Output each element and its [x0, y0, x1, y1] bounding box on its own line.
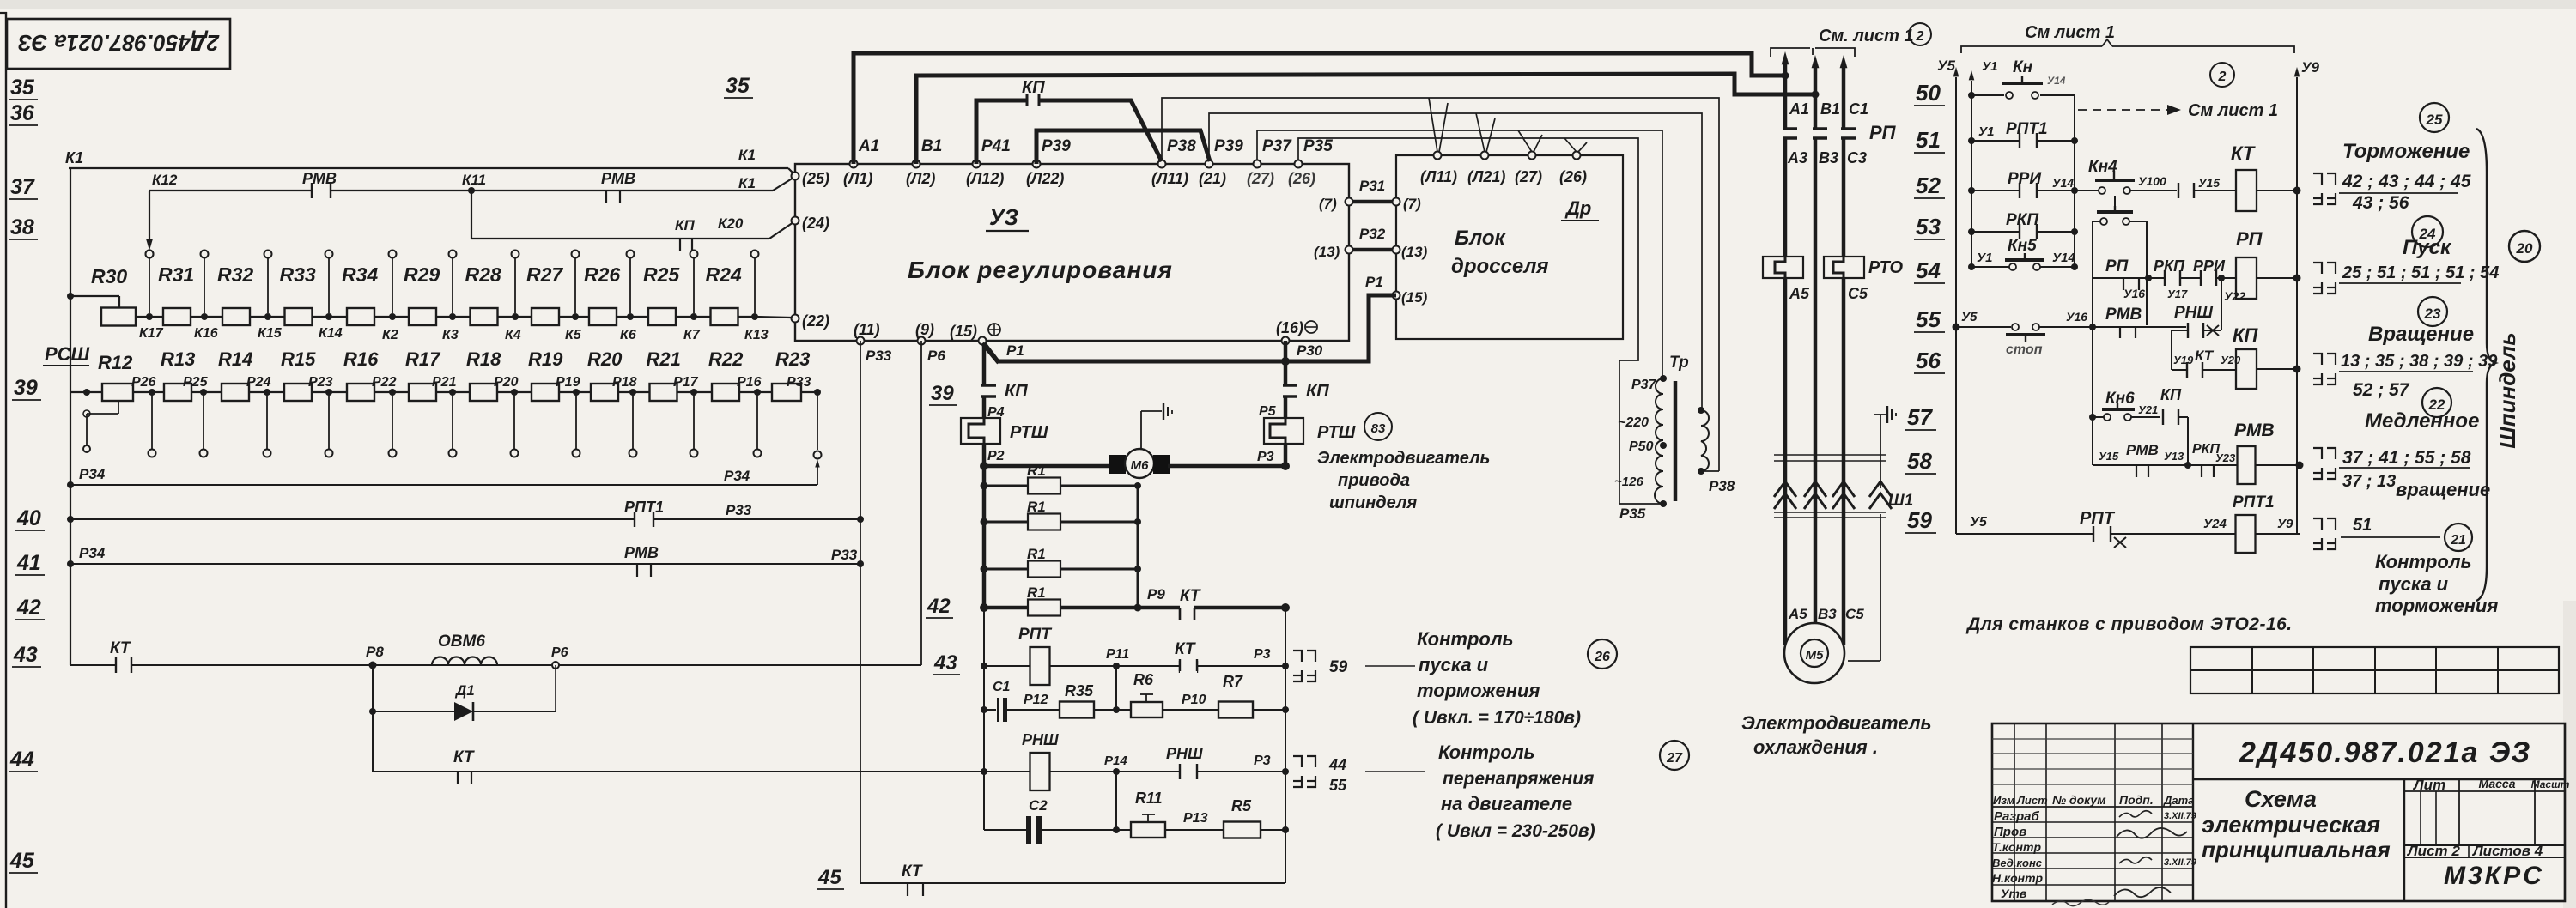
wire line 43 left (КТ-ОВМ6-Р6) — [70, 664, 921, 666]
node K11 — [468, 187, 475, 194]
bottom terminal (15) plus — [979, 337, 987, 345]
node К3 — [449, 313, 456, 320]
svg-text:Р24: Р24 — [246, 375, 271, 390]
node Р14 — [1113, 768, 1120, 775]
cable marker lines lower — [1774, 512, 1886, 513]
svg-text:Листов 4: Листов 4 — [2471, 843, 2543, 859]
diode Д1 branch — [369, 708, 376, 715]
svg-text:13 ; 35 ; 38 ; 39 ; 39: 13 ; 35 ; 38 ; 39 ; 39 — [2341, 352, 2498, 371]
block Блок регулирования outline — [795, 164, 1349, 341]
wire — [694, 316, 711, 318]
top terminal Р39 (Л22) — [1033, 160, 1041, 168]
contact PMB 1 — [313, 188, 330, 193]
R12 wiper tap — [118, 401, 119, 414]
thin wire (21) to choke block — [1209, 113, 1702, 410]
node К16 — [201, 313, 208, 320]
node К7 — [690, 313, 697, 320]
svg-text:Р3: Р3 — [1257, 450, 1274, 464]
terminal (22) — [792, 315, 799, 323]
relay coil РПТ — [1030, 647, 1050, 685]
wire Р34 line — [67, 481, 74, 488]
svg-text:(11): (11) — [854, 321, 880, 338]
svg-text:торможения: торможения — [1417, 680, 1540, 701]
top terminal Р41 (Л12) — [973, 160, 981, 168]
svg-text:R5: R5 — [1231, 797, 1252, 814]
title block outline — [1992, 723, 2565, 901]
svg-text:Р12: Р12 — [1024, 693, 1048, 707]
svg-text:R1: R1 — [1027, 463, 1046, 479]
wire line 42 with R1 and КТ — [980, 603, 988, 612]
svg-text:РМВ: РМВ — [2105, 306, 2142, 324]
resistor R25 — [648, 308, 676, 325]
svg-text:Р38: Р38 — [1167, 137, 1196, 155]
svg-text:РРИ: РРИ — [2008, 170, 2041, 188]
resistor R16 — [347, 384, 374, 401]
rail У9 right — [2294, 67, 2300, 76]
svg-text:Кн: Кн — [2013, 58, 2033, 76]
svg-text:К1: К1 — [65, 149, 83, 166]
node Р16 — [754, 389, 761, 396]
svg-text:R1: R1 — [1027, 499, 1046, 515]
wire K1 top line — [69, 167, 788, 169]
bottom terminal (11) Р33 — [857, 337, 865, 345]
svg-text:К7: К7 — [683, 328, 701, 342]
transformer core — [1674, 381, 1678, 501]
node Р23 — [325, 389, 332, 396]
contact КТ line44 — [457, 772, 459, 784]
svg-text:У22: У22 — [2224, 289, 2245, 303]
svg-text:Р10: Р10 — [1182, 693, 1206, 707]
node Р26 — [149, 389, 155, 396]
title block internal lines — [2192, 723, 2194, 901]
svg-text:R30: R30 — [91, 265, 127, 288]
wire to Р2 — [982, 444, 987, 466]
thin wire Л11 to choke block — [1162, 98, 1719, 471]
node К2 — [389, 313, 396, 320]
svg-text:(Л22): (Л22) — [1026, 170, 1064, 187]
svg-text:Торможение: Торможение — [2342, 140, 2470, 163]
node Р30 junction — [1281, 357, 1290, 366]
svg-text:(9): (9) — [915, 321, 934, 338]
svg-text:Для станков с приводом ЭТО2-1: Для станков с приводом ЭТО2-16. — [1965, 614, 2293, 634]
button Кн4 lower contact — [2093, 221, 2100, 222]
svg-text:Р6: Р6 — [551, 645, 568, 660]
svg-text:КП: КП — [2160, 386, 2182, 403]
ground wire and symbol — [1880, 415, 1881, 488]
svg-text:РПТ1: РПТ1 — [2233, 493, 2275, 512]
svg-text:Пуск: Пуск — [2403, 236, 2452, 259]
svg-text:25: 25 — [2426, 112, 2443, 128]
terminal circle above К14 — [325, 251, 333, 258]
svg-text:Р22: Р22 — [372, 375, 397, 390]
svg-text:Др: Др — [1564, 197, 1591, 219]
link РНШ branch — [2218, 275, 2225, 281]
wire — [267, 391, 284, 393]
node К15 — [264, 313, 271, 320]
choke top terminal (26) — [1573, 152, 1581, 160]
svg-text:R16: R16 — [343, 348, 379, 370]
relay coil РНШ — [1030, 753, 1050, 790]
svg-text:R1: R1 — [1027, 546, 1046, 562]
capacitor С2 row — [984, 829, 1028, 831]
svg-text:R13: R13 — [161, 348, 195, 370]
svg-text:Р14: Р14 — [1104, 754, 1127, 768]
ground at motor М6 — [1140, 411, 1142, 449]
wire Кн6 bypass verticals — [2187, 417, 2189, 465]
wire phase А lower — [1783, 278, 1788, 645]
svg-text:КТ: КТ — [453, 748, 475, 766]
svg-text:Масса: Масса — [2479, 777, 2516, 790]
svg-text:охлаждения .: охлаждения . — [1753, 736, 1878, 758]
svg-text:39: 39 — [14, 376, 38, 400]
off-sheet bracket См лист 1 (2) — [1771, 48, 1810, 57]
svg-text:Масшт: Масшт — [2531, 778, 2570, 790]
svg-text:(13): (13) — [1401, 244, 1428, 260]
svg-text:Кн6: Кн6 — [2105, 390, 2135, 408]
svg-text:Р1: Р1 — [1006, 342, 1024, 359]
svg-text:40: 40 — [16, 506, 41, 530]
svg-text:50: 50 — [1916, 80, 1941, 106]
contact КП row 52 — [2179, 188, 2193, 193]
svg-text:Пров: Пров — [1994, 825, 2026, 839]
svg-text:шпинделя: шпинделя — [1329, 493, 1417, 512]
button Кн5 row 54 — [1968, 263, 1975, 270]
row РМВ-РКП y542 — [2092, 327, 2093, 465]
svg-text:Р33: Р33 — [866, 348, 892, 364]
svg-text:У14: У14 — [2052, 176, 2074, 190]
svg-text:У20: У20 — [2221, 354, 2241, 366]
sheet frame left border — [5, 12, 7, 908]
svg-text:Лит: Лит — [2412, 777, 2445, 793]
wire K20 line — [471, 191, 472, 239]
svg-text:У15: У15 — [2099, 450, 2119, 463]
resistor R14 — [222, 384, 249, 401]
svg-text:42: 42 — [927, 595, 951, 618]
svg-text:2: 2 — [2218, 70, 2227, 84]
contact РКП row 53 — [1968, 228, 1975, 235]
svg-text:Р16: Р16 — [737, 375, 762, 390]
terminal circle below Р22 — [392, 392, 393, 449]
svg-text:С3: С3 — [1847, 149, 1867, 166]
cross-ref pair Пуск — [2313, 263, 2322, 274]
svg-text:К12: К12 — [152, 172, 178, 188]
node Р18 — [629, 389, 636, 396]
motor М6 armature — [984, 464, 1111, 469]
terminal circle above К7 — [690, 251, 698, 258]
svg-text:Р13: Р13 — [1183, 811, 1208, 826]
top terminal Р37 (27) — [1254, 160, 1261, 168]
button Кн4 — [2075, 190, 2099, 191]
svg-text:А5: А5 — [1788, 606, 1807, 622]
wire КП column below (15) — [982, 343, 987, 385]
button стоп row 55 — [1953, 324, 1960, 331]
choke terminal (15) and wire Р1 — [1393, 292, 1400, 300]
resistor R17 — [409, 384, 436, 401]
svg-text:Р39: Р39 — [1214, 137, 1243, 155]
phase line В with arrow — [1812, 55, 1820, 68]
svg-text:К15: К15 — [258, 326, 283, 341]
thermal relay РТШ left — [961, 418, 1000, 444]
svg-text:Вед.конс: Вед.конс — [1992, 857, 2043, 869]
button Кн row 50 — [1968, 92, 1975, 99]
svg-text:М3КРС: М3КРС — [2444, 862, 2544, 890]
svg-text:С2: С2 — [1029, 797, 1048, 814]
terminal circle below Р26 — [151, 392, 153, 449]
svg-text:Ш1: Ш1 — [1888, 492, 1913, 510]
relay coil РП — [2236, 257, 2257, 299]
wire R1 right rail — [1137, 486, 1139, 608]
relay coil КП — [2236, 349, 2257, 389]
svg-text:Блок: Блок — [1455, 227, 1507, 250]
node К14 — [325, 313, 332, 320]
wire line 43 РПТ row — [981, 663, 987, 669]
R1 parallel bank — [981, 482, 988, 490]
svg-text:РМВ: РМВ — [2234, 421, 2275, 440]
top terminal В1 (Л2) — [913, 160, 920, 168]
node К6 — [627, 313, 634, 320]
svg-text:Р34: Р34 — [79, 466, 106, 482]
svg-text:(26): (26) — [1559, 168, 1587, 185]
svg-text:УЗ: УЗ — [989, 204, 1018, 230]
terminal circle above К2 — [389, 251, 397, 258]
svg-text:пуска и: пуска и — [2379, 573, 2449, 595]
wire left R1 rail — [982, 466, 987, 608]
terminal circle below Р23 — [328, 392, 330, 449]
svg-text:К14: К14 — [319, 326, 343, 341]
svg-text:Блок регулирования: Блок регулирования — [908, 257, 1173, 283]
svg-text:Схема: Схема — [2245, 786, 2317, 812]
resistor R27 — [532, 308, 559, 325]
svg-text:РМВ: РМВ — [601, 170, 635, 187]
svg-text:Р26: Р26 — [131, 375, 156, 390]
ref circle 24 — [2412, 216, 2443, 247]
inverted stamp box 2Д450.987.021а ЭЗ — [7, 19, 230, 69]
svg-text:R17: R17 — [405, 348, 441, 370]
top terminal Р39 (21) — [1206, 160, 1213, 168]
svg-text:Р34: Р34 — [724, 468, 750, 484]
svg-text:Р8: Р8 — [366, 644, 384, 660]
svg-text:41: 41 — [16, 551, 41, 575]
svg-text:РМВ: РМВ — [2126, 442, 2159, 458]
svg-text:Электродвигатель: Электродвигатель — [1317, 449, 1490, 468]
svg-text:(Л11): (Л11) — [1420, 168, 1457, 185]
svg-text:R35: R35 — [1065, 682, 1094, 699]
bus wire Р39 (Л22) — [1036, 130, 1210, 164]
svg-text:25 ; 51 ; 51 ; 51 ; 54: 25 ; 51 ; 51 ; 51 ; 54 — [2342, 263, 2499, 282]
svg-text:R24: R24 — [706, 263, 742, 286]
thin wire (27) to choke and transformer — [1257, 130, 1662, 378]
contact PMB 2 — [605, 191, 607, 203]
svg-text:37: 37 — [10, 175, 35, 199]
relay coil РПТ1 — [2236, 515, 2256, 553]
wire — [633, 391, 650, 393]
resistor R13 — [164, 384, 191, 401]
svg-text:на двигателе: на двигателе — [1441, 793, 1572, 814]
svg-text:55: 55 — [1916, 306, 1941, 332]
wire — [204, 316, 222, 318]
svg-text:(Л11): (Л11) — [1151, 170, 1188, 187]
block Блок дросселя outline — [1396, 155, 1623, 339]
svg-text:КТ: КТ — [1175, 640, 1196, 658]
svg-text:R18: R18 — [466, 348, 501, 370]
wire — [453, 391, 470, 393]
bottom terminal (9) Р6 — [918, 337, 926, 345]
svg-text:R6: R6 — [1133, 671, 1154, 688]
svg-text:Н.контр: Н.контр — [1992, 871, 2044, 885]
wire Р6 rail from (9) — [920, 341, 922, 665]
resistor R22 — [712, 384, 739, 401]
bus wire Р41 with КП contact — [976, 100, 1027, 164]
svg-text:КП: КП — [1022, 78, 1045, 97]
svg-text:Р33: Р33 — [787, 375, 811, 390]
svg-text:Контроль: Контроль — [1417, 628, 1514, 650]
svg-text:РТШ: РТШ — [1010, 423, 1048, 442]
svg-text:(7): (7) — [1319, 196, 1337, 212]
wire phase С middle — [1842, 138, 1846, 257]
svg-text:Лист 2: Лист 2 — [2406, 843, 2460, 859]
svg-text:Р34: Р34 — [79, 545, 106, 561]
wire Р1 thick from (15) — [982, 343, 999, 363]
svg-text:Р9: Р9 — [1147, 586, 1165, 602]
svg-text:R21: R21 — [647, 348, 681, 370]
contactor РП main contacts — [1783, 127, 1797, 130]
relay coil КТ — [2236, 170, 2257, 211]
node К13 — [751, 313, 758, 320]
contact РНШ with Х — [2172, 330, 2221, 331]
ref circle 23 — [2418, 297, 2447, 326]
svg-text:57: 57 — [1907, 404, 1933, 430]
contact РНШ — [1181, 769, 1196, 774]
node Р20 — [511, 389, 518, 396]
terminal circle above К13 — [751, 251, 759, 258]
svg-text:~220: ~220 — [1618, 415, 1649, 430]
node Р6 — [552, 662, 559, 669]
potentiometer R11 — [1131, 822, 1165, 838]
thermal overload РТО phase А — [1763, 257, 1803, 278]
bottom terminal (16) minus — [1282, 337, 1290, 345]
terminal circle above К3 — [449, 251, 457, 258]
svg-text:РКП: РКП — [2006, 211, 2038, 229]
dashed wire См лист 1 arrow — [2078, 109, 2172, 111]
svg-text:~126: ~126 — [1614, 475, 1643, 489]
svg-text:У100: У100 — [2138, 174, 2166, 188]
svg-text:(Л12): (Л12) — [966, 170, 1004, 187]
resistor R29 — [409, 308, 436, 325]
svg-text:Контроль: Контроль — [2375, 551, 2472, 572]
svg-text:59: 59 — [1329, 658, 1348, 676]
cable marker lines upper — [1774, 454, 1886, 456]
wire Р11 link — [1115, 666, 1117, 710]
transformer secondary winding — [1701, 410, 1709, 471]
svg-text:РМВ: РМВ — [302, 170, 337, 187]
wire K13 to terminal (22) — [755, 317, 791, 318]
node К17 — [146, 313, 153, 320]
capacitor С1 row — [981, 706, 987, 713]
svg-text:Лист: Лист — [2016, 794, 2048, 807]
svg-text:58: 58 — [1907, 448, 1932, 474]
svg-text:Р3: Р3 — [1254, 754, 1271, 768]
svg-text:Контроль: Контроль — [1438, 742, 1535, 763]
terminal circle above К16 — [201, 251, 209, 258]
terminal circle below Р18 — [632, 392, 634, 449]
wire — [630, 316, 648, 318]
terminal circle above К6 — [627, 251, 635, 258]
terminal (24) — [792, 217, 799, 225]
svg-text:КП: КП — [1005, 382, 1028, 401]
svg-text:См. лист 1: См. лист 1 — [1819, 27, 1914, 45]
wire line 45 КТ — [860, 882, 1285, 884]
svg-text:К5: К5 — [565, 328, 582, 342]
svg-text:Р35: Р35 — [1619, 505, 1646, 522]
contact РПТ1 row 51 — [1968, 137, 1975, 144]
terminal circle above К15 — [264, 251, 272, 258]
ref circle 27 — [1660, 741, 1689, 770]
svg-text:К17: К17 — [139, 326, 164, 341]
motor М5 cooling — [1784, 623, 1844, 683]
svg-text:83: 83 — [1371, 421, 1386, 436]
ref circle 25 — [2420, 103, 2449, 132]
svg-text:К20: К20 — [718, 215, 744, 232]
svg-text:2: 2 — [1916, 29, 1924, 44]
svg-text:Вращение: Вращение — [2368, 323, 2474, 346]
wire phase А middle — [1783, 138, 1788, 257]
svg-text:R26: R26 — [584, 263, 620, 286]
svg-text:А5: А5 — [1789, 285, 1810, 302]
svg-text:К6: К6 — [620, 328, 636, 342]
scribble below title block — [2052, 899, 2109, 905]
svg-text:(25): (25) — [802, 170, 829, 187]
svg-text:37 ; 13: 37 ; 13 — [2342, 472, 2396, 491]
svg-text:Р11: Р11 — [1106, 647, 1129, 662]
svg-text:У1: У1 — [1978, 124, 1995, 139]
wire left rail — [70, 168, 71, 665]
svg-text:Р50: Р50 — [1629, 439, 1654, 454]
top terminal Р38 (Л11) — [1158, 160, 1166, 168]
big brace Шпиндель — [2476, 129, 2495, 601]
svg-text:R20: R20 — [587, 348, 623, 370]
svg-text:КП: КП — [675, 217, 695, 233]
wire РПТ1 line 40 — [67, 516, 74, 523]
wire РНШ row — [981, 768, 987, 775]
svg-text:R22: R22 — [708, 348, 744, 370]
svg-text:R31: R31 — [158, 263, 194, 286]
svg-text:Утв: Утв — [2001, 887, 2027, 900]
svg-text:3.XII.79: 3.XII.79 — [2164, 857, 2197, 868]
svg-text:R15: R15 — [281, 348, 316, 370]
svg-text:Подп.: Подп. — [2119, 793, 2154, 807]
svg-text:35: 35 — [726, 74, 750, 98]
svg-text:РРИ: РРИ — [2193, 257, 2226, 275]
svg-text:У14: У14 — [2052, 251, 2076, 265]
cross-ref pair 44 55 — [1293, 756, 1302, 767]
svg-text:52: 52 — [1916, 173, 1941, 198]
rail У1 — [1969, 70, 1975, 80]
node К4 — [512, 313, 519, 320]
svg-text:М5: М5 — [1806, 648, 1824, 663]
svg-text:Р3: Р3 — [1254, 647, 1271, 662]
svg-text:36: 36 — [10, 101, 35, 125]
svg-text:44: 44 — [1328, 756, 1346, 773]
svg-text:20: 20 — [2516, 240, 2533, 257]
svg-text:Кн4: Кн4 — [2088, 158, 2117, 176]
node Р21 — [449, 389, 456, 396]
resistor R28 — [471, 308, 498, 325]
svg-text:К11: К11 — [462, 172, 486, 188]
contact КТ line43b — [1179, 661, 1181, 673]
wire row2 left — [70, 391, 102, 393]
svg-text:R11: R11 — [1135, 790, 1163, 807]
svg-text:35: 35 — [10, 76, 35, 100]
